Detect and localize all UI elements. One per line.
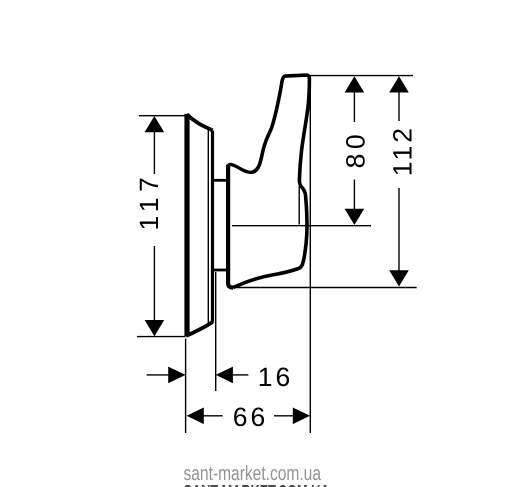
escutcheon top shoulder [187,114,213,130]
extension line low (112 bottom) [234,287,417,289]
escutcheon bottom shoulder [186,322,212,336]
handle hub inner line [298,187,300,225]
dimension 117 arrow down [145,320,165,336]
dimension 16 right shaft [233,374,249,376]
extension line top-right [310,75,413,77]
svg-text:66: 66 [233,402,268,432]
dimension 16 left shaft [147,374,169,376]
extension line vertical left (x185.6) [185,339,187,434]
handle ear notch [228,164,258,172]
extension line top-left [139,115,187,117]
extension line vertical right (x310.3) [309,76,311,433]
escutcheon wall plate [184,114,189,337]
escutcheon front face inner line [207,130,209,323]
dimension 80 arrow up [345,76,365,92]
dimension 112 line lower shaft [398,188,400,272]
dimension 16 arrow left [216,367,233,384]
handle base vertical [228,165,233,288]
handle skirt bottom edge [233,264,303,288]
handle grip outline [252,75,309,264]
svg-text:112: 112 [388,125,418,176]
extension line vertical front face (x215.7) [215,272,217,391]
valve stem top edge [214,179,227,182]
svg-text:117: 117 [134,172,164,231]
dimension 66 left shaft [203,415,223,417]
valve stem bottom edge [214,269,227,272]
svg-text:16: 16 [258,362,293,392]
escutcheon front face outer line [211,131,214,323]
dimension 117 line upper shaft [153,131,155,174]
svg-text:80: 80 [341,130,371,168]
dimension 117 arrow up [145,116,165,132]
dimension 66 arrow right [293,408,310,425]
dimension 112 arrow down [389,270,409,286]
dimension 80 arrow down [345,209,365,225]
extension line mid (80 bottom) [232,225,371,227]
dimension 112 line upper shaft [398,91,400,121]
dimension 66 arrow left [187,408,204,425]
dimension 80 line upper shaft [353,91,355,122]
dimension 117 line lower shaft [153,246,155,322]
dimension 80 line lower shaft [353,180,355,211]
extension line bottom-left [137,336,186,338]
dimension 112 arrow up [389,76,409,92]
dimension 66 right shaft [274,415,294,417]
svg-text:SANT-MARKET.COM.UA: SANT-MARKET.COM.UA [184,481,330,487]
dimension 16 arrow right [168,367,185,384]
